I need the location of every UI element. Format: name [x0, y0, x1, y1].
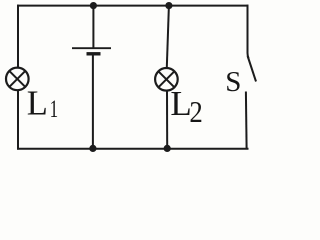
wire battery branch top	[92, 6, 94, 48]
wire L2 branch bottom	[166, 91, 168, 149]
node dot bottom L2	[164, 145, 171, 152]
lamp L2	[155, 68, 178, 91]
lamp L1	[6, 68, 29, 91]
wire battery branch bottom	[92, 54, 94, 149]
svg-text:S: S	[225, 66, 241, 98]
svg-text:L: L	[27, 84, 48, 122]
node dot top battery	[90, 2, 97, 9]
wire bottom	[17, 148, 249, 150]
battery cell	[72, 48, 111, 54]
svg-text:1: 1	[50, 95, 58, 123]
wire left	[17, 5, 19, 150]
svg-text:2: 2	[189, 96, 202, 130]
wire right upper (to switch)	[248, 5, 249, 59]
node dot top L2	[165, 2, 172, 9]
wire right lower (switch contact)	[245, 92, 248, 150]
node dot bottom battery	[89, 145, 96, 152]
wire L2 branch top	[167, 6, 169, 68]
wire top	[17, 5, 249, 7]
switch S blade	[248, 56, 256, 82]
